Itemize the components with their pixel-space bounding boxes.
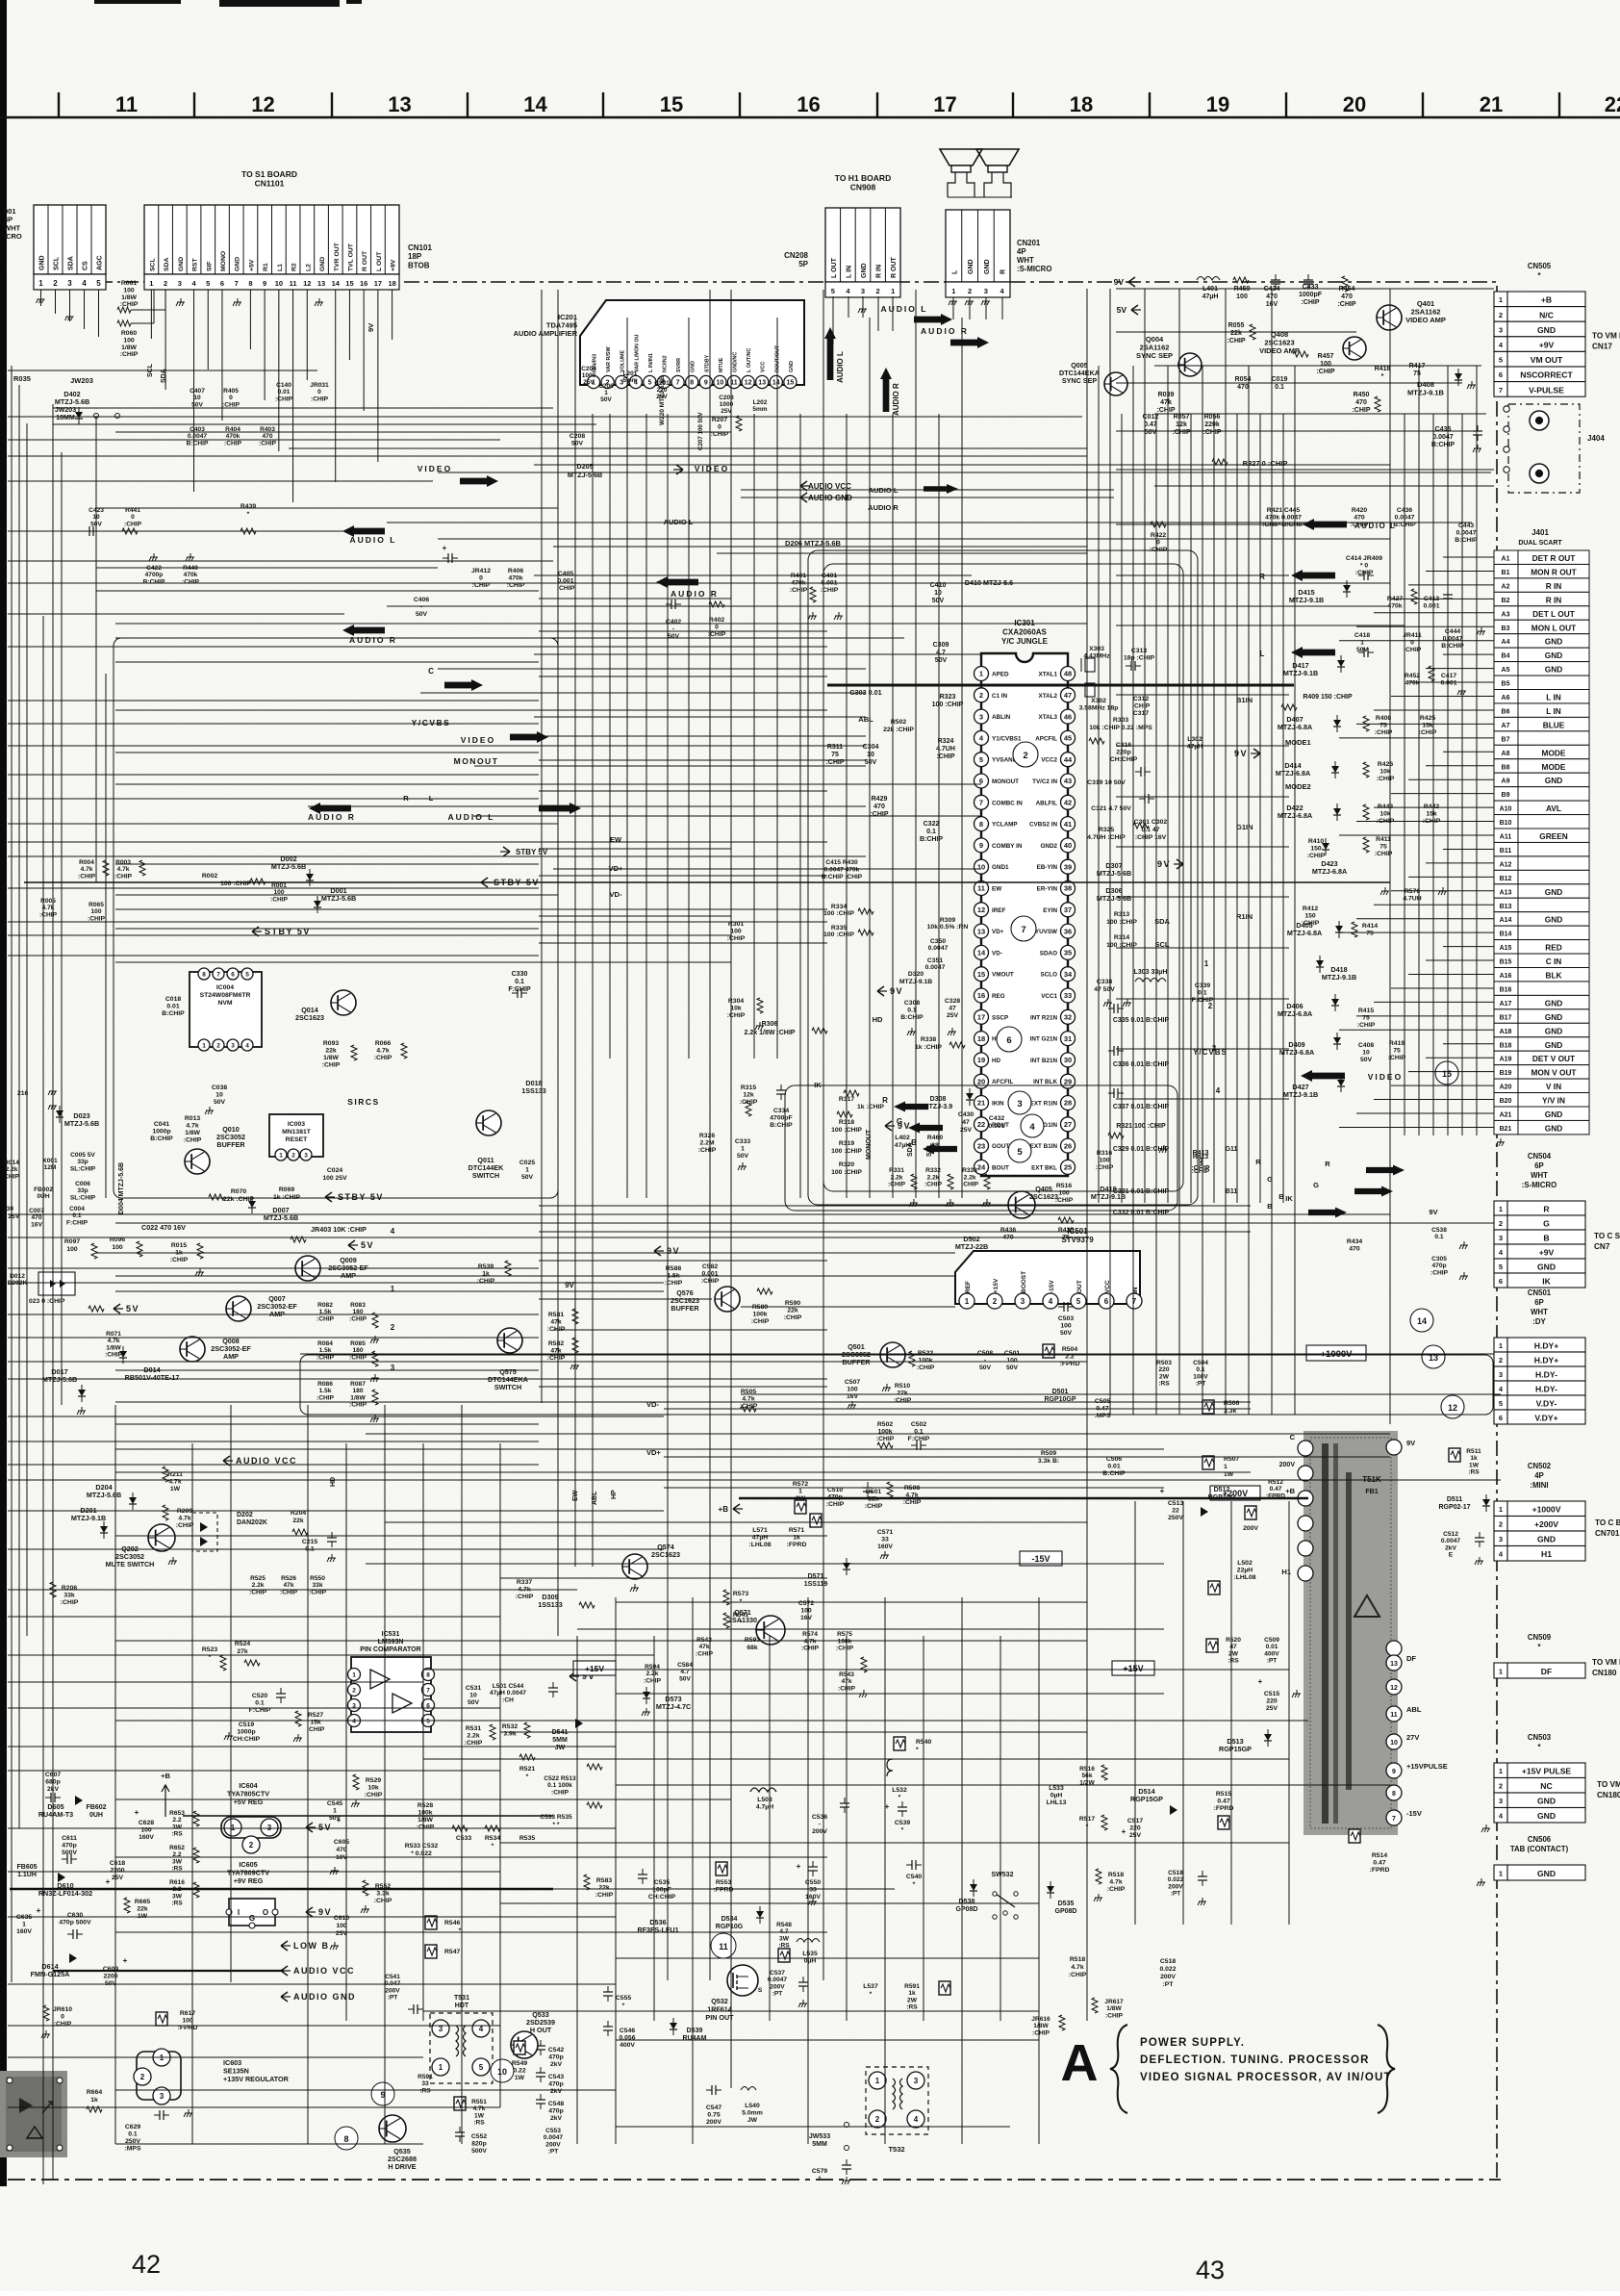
svg-text:C533: C533 (456, 1835, 471, 1842)
circled 7 (1011, 916, 1036, 941)
svg-text:22k: 22k (897, 1390, 908, 1397)
svg-text:10: 10 (275, 279, 283, 288)
svg-text:1: 1 (1499, 1870, 1503, 1878)
svg-text:R: R (882, 1096, 888, 1105)
connector J404 phono jacks (1508, 404, 1580, 493)
svg-text::CHIP: :CHIP (727, 935, 746, 942)
svg-text:TO H1 BOARD: TO H1 BOARD (835, 173, 891, 183)
node 9V chev (877, 986, 884, 996)
svg-text:MTZJ-5.6B: MTZJ-5.6B (568, 471, 602, 479)
mosfet Q532 pin out (727, 1965, 758, 1996)
svg-text:1: 1 (1499, 1205, 1503, 1213)
svg-text:L501 C544: L501 C544 (493, 1683, 524, 1690)
transistor Q575 (497, 1328, 522, 1353)
svg-text:5: 5 (426, 1718, 430, 1724)
svg-text:R IN: R IN (1546, 581, 1562, 591)
svg-text:RF3FS-LFU1: RF3FS-LFU1 (637, 1926, 678, 1934)
wire AUDIO L arrow left (1303, 519, 1347, 530)
svg-text:Y/C JUNGLE: Y/C JUNGLE (1001, 637, 1049, 646)
svg-text:5V: 5V (1117, 305, 1127, 315)
svg-text:R057: R057 (1174, 414, 1190, 421)
svg-text:R015: R015 (171, 1242, 187, 1249)
svg-text:160V: 160V (877, 1543, 893, 1550)
svg-text:GND: GND (1545, 776, 1562, 785)
svg-text:21: 21 (977, 1099, 985, 1108)
svg-text:GND: GND (39, 255, 46, 270)
svg-text:TO VM I: TO VM I (1592, 332, 1620, 341)
svg-text:43: 43 (1196, 2256, 1225, 2284)
svg-text:L303 33µH: L303 33µH (1134, 969, 1168, 976)
svg-text:MODE: MODE (1542, 748, 1566, 757)
svg-text:47k: 47k (550, 1348, 562, 1355)
svg-text:BLK: BLK (1545, 971, 1561, 981)
svg-text::FPRD: :FPRD (787, 1542, 807, 1548)
svg-text:R511: R511 (1466, 1448, 1481, 1455)
svg-text:G: G (1313, 1181, 1319, 1189)
node 9V chev2 (1177, 859, 1183, 869)
svg-text:C502: C502 (911, 1421, 926, 1428)
svg-text:4: 4 (391, 1227, 395, 1236)
svg-text:R086: R086 (317, 1381, 333, 1388)
svg-text:CN180: CN180 (1597, 1791, 1620, 1799)
svg-text:C520: C520 (252, 1693, 267, 1699)
svg-text:C308: C308 (904, 1000, 920, 1007)
svg-text::RS: :RS (1158, 1381, 1170, 1388)
svg-text:2.2k 1/8W :CHIP: 2.2k 1/8W :CHIP (745, 1030, 796, 1036)
svg-text::MPS: :MPS (125, 2146, 141, 2153)
svg-text:8: 8 (248, 279, 252, 288)
svg-text:YCLAMP: YCLAMP (992, 822, 1018, 829)
svg-text:33: 33 (881, 1537, 889, 1543)
svg-text:12M: 12M (44, 1164, 57, 1171)
svg-text:GND: GND (1545, 1026, 1562, 1035)
svg-text:16V: 16V (800, 1615, 813, 1621)
svg-text:EW: EW (610, 835, 622, 844)
svg-text:GND: GND (1545, 637, 1562, 647)
svg-text:NC/IN2: NC/IN2 (663, 355, 669, 372)
svg-text:R429: R429 (872, 796, 888, 803)
svg-text:A10: A10 (1500, 806, 1512, 813)
svg-text:18p :CHIP: 18p :CHIP (1124, 655, 1155, 662)
svg-text::CHIP: :CHIP (275, 395, 293, 402)
svg-text:8: 8 (690, 380, 694, 387)
svg-text::CHIP: :CHIP (184, 1137, 202, 1144)
svg-text:C546: C546 (620, 2028, 635, 2034)
svg-text:*: * (459, 1927, 462, 1934)
svg-text:470p: 470p (548, 2108, 564, 2115)
svg-text:IKIN: IKIN (992, 1101, 1004, 1108)
svg-text::CHIP: :CHIP (1156, 407, 1175, 414)
svg-text:1: 1 (149, 279, 153, 288)
svg-text:R457: R457 (1318, 353, 1334, 360)
svg-text:B:CHIP: B:CHIP (920, 836, 943, 843)
svg-text:11: 11 (1390, 1712, 1398, 1719)
svg-text:400V: 400V (620, 2042, 635, 2049)
svg-text:C321 4.7 50V: C321 4.7 50V (1091, 805, 1131, 812)
svg-text:AUDIO R: AUDIO R (671, 589, 719, 599)
svg-text:JR616: JR616 (1031, 2016, 1050, 2023)
svg-text:S: S (758, 1987, 763, 1994)
svg-text:48: 48 (1064, 670, 1072, 678)
svg-text:APED: APED (992, 672, 1009, 678)
diode D202 DAN202K (192, 1513, 217, 1551)
svg-text:C435: C435 (1435, 426, 1452, 433)
circled 3 (1008, 1091, 1031, 1114)
svg-text:C405: C405 (558, 571, 573, 577)
node G arrow (908, 1123, 943, 1134)
svg-text:10: 10 (215, 1092, 223, 1099)
svg-text:9V: 9V (367, 323, 375, 332)
svg-text:3W: 3W (172, 1824, 183, 1830)
svg-text:0: 0 (317, 389, 321, 395)
svg-text:9V: 9V (1234, 749, 1248, 758)
svg-text:4.7k: 4.7k (1071, 1964, 1083, 1971)
svg-text:SDAO: SDAO (1040, 950, 1057, 957)
svg-text::PT: :PT (388, 1995, 398, 2002)
op-amp IC201 TDA7495 audio amplifier (580, 300, 804, 385)
svg-text:0.01: 0.01 (1107, 1464, 1120, 1470)
svg-text:BOUT: BOUT (992, 1164, 1009, 1171)
svg-text:9: 9 (1392, 1769, 1396, 1775)
svg-text::CHIP: :CHIP (417, 1824, 435, 1831)
svg-text:MTZJ-9.1B: MTZJ-9.1B (1091, 1192, 1126, 1201)
svg-text::CHIP: :CHIP (1388, 1055, 1406, 1061)
node STBY 5V (325, 1192, 332, 1202)
svg-text:030: 030 (3, 1206, 13, 1212)
svg-text:INT BLK: INT BLK (1033, 1079, 1057, 1085)
resistor R553 (716, 1862, 727, 1875)
svg-text:SDA: SDA (907, 1142, 914, 1157)
svg-text:200V: 200V (706, 2119, 721, 2126)
circled 12 (1441, 1395, 1464, 1418)
svg-text:VAR L/MON OU: VAR L/MON OU (634, 334, 640, 372)
svg-text:C610: C610 (334, 1915, 349, 1922)
svg-text:R333: R333 (962, 1167, 977, 1174)
svg-text:9V: 9V (898, 1121, 911, 1131)
svg-text:A15: A15 (1500, 945, 1512, 952)
svg-text:MTZJ-9.1B: MTZJ-9.1B (1407, 389, 1445, 397)
svg-text:*: * (899, 1795, 901, 1801)
svg-text:4.7k: 4.7k (804, 1638, 817, 1645)
svg-text:R434: R434 (1347, 1238, 1362, 1245)
svg-text:33: 33 (421, 2080, 429, 2087)
node 9V out (306, 1907, 313, 1917)
svg-text:22k: 22k (137, 1906, 148, 1913)
svg-text:DET L OUT: DET L OUT (1532, 609, 1575, 619)
svg-text:27k: 27k (237, 1648, 248, 1655)
svg-text:CH:CHIP: CH:CHIP (648, 1894, 676, 1901)
svg-text:100 :CHIP: 100 :CHIP (220, 880, 251, 887)
svg-text:36: 36 (1064, 927, 1072, 935)
svg-text:IK: IK (1285, 1194, 1293, 1203)
svg-text:470: 470 (31, 1214, 41, 1221)
svg-text:C305: C305 (1431, 1256, 1447, 1263)
svg-text:R323: R323 (940, 694, 956, 701)
svg-text:L2: L2 (305, 264, 312, 271)
svg-text:AUDIO R: AUDIO R (868, 503, 899, 512)
transistor Q202 mute switch (148, 1524, 175, 1551)
connector CN501 (1494, 1338, 1507, 1352)
svg-text:* 0.022: * 0.022 (411, 1850, 432, 1857)
svg-text:+: + (1122, 1827, 1126, 1836)
svg-text:ST24W08FM6TR: ST24W08FM6TR (200, 992, 251, 999)
svg-text::FPRD: :FPRD (1214, 1805, 1234, 1812)
svg-text:R013: R013 (185, 1115, 200, 1122)
connector CN1101 (TO S1 BOARD) (144, 205, 399, 274)
svg-text:WHT: WHT (4, 223, 20, 232)
svg-text:R309: R309 (940, 917, 955, 924)
svg-text:14: 14 (977, 949, 986, 957)
svg-text:33: 33 (1064, 991, 1072, 1000)
svg-text:L533: L533 (1049, 1785, 1064, 1792)
svg-text:B12: B12 (1500, 876, 1512, 882)
svg-text:AUDIO R: AUDIO R (921, 326, 969, 336)
svg-text:CN180: CN180 (1592, 1669, 1617, 1677)
svg-text:22k: 22k (325, 1048, 337, 1055)
svg-text:4.7k: 4.7k (108, 1338, 120, 1344)
svg-text:GND: GND (691, 361, 696, 372)
svg-text:19: 19 (1206, 92, 1229, 116)
svg-text:0.022: 0.022 (1159, 1966, 1176, 1973)
IC U603 +135V regulator (137, 2052, 181, 2100)
svg-text:5.0mm: 5.0mm (742, 2110, 763, 2117)
svg-text:R419: R419 (1389, 1040, 1405, 1047)
svg-text::CHIP: :CHIP (259, 440, 277, 446)
svg-text:C319 10 50V: C319 10 50V (1087, 779, 1126, 786)
svg-text::CHIP: :CHIP (551, 1789, 570, 1796)
svg-text:6P: 6P (1534, 1298, 1544, 1307)
svg-text::CHIP: :CHIP (270, 896, 289, 903)
svg-text:TVL OUT: TVL OUT (347, 242, 354, 271)
svg-text:H1: H1 (1541, 1549, 1552, 1559)
svg-text:3: 3 (231, 1042, 235, 1049)
svg-text:16: 16 (977, 991, 985, 1000)
svg-text:14: 14 (772, 380, 780, 387)
svg-text:D202K: D202K (8, 1280, 28, 1287)
svg-text:B11: B11 (1226, 1188, 1238, 1195)
svg-text:R085: R085 (350, 1340, 366, 1347)
svg-text:A16: A16 (1500, 973, 1512, 980)
svg-text:33p: 33p (77, 1187, 88, 1194)
svg-text:MTZJ-9.1B: MTZJ-9.1B (1283, 1090, 1318, 1099)
svg-text:3: 3 (1499, 1234, 1503, 1242)
svg-text:R616: R616 (169, 1879, 185, 1886)
svg-text:180: 180 (352, 1388, 363, 1394)
svg-text:*: * (526, 1773, 529, 1780)
svg-text:15: 15 (345, 279, 353, 288)
svg-text:200V: 200V (1279, 1462, 1296, 1468)
svg-text:27: 27 (1064, 1120, 1072, 1129)
svg-text:D535: D535 (1058, 1901, 1075, 1907)
svg-text:+1000V: +1000V (1532, 1505, 1561, 1515)
svg-text:JW: JW (555, 1745, 566, 1751)
svg-text:CN505: CN505 (1528, 262, 1552, 270)
svg-text::CHIP: :CHIP (740, 1099, 758, 1106)
svg-text:C531: C531 (466, 1685, 481, 1692)
svg-text:LHL13: LHL13 (1047, 1799, 1067, 1806)
svg-text:R572: R572 (793, 1481, 808, 1488)
svg-text:220: 220 (657, 387, 668, 394)
svg-text:1/8W: 1/8W (121, 344, 137, 351)
svg-text:R: R (1325, 1160, 1330, 1168)
svg-text:R334: R334 (831, 904, 847, 910)
svg-text:XTAL1: XTAL1 (1039, 672, 1058, 678)
svg-text:100: 100 (336, 1923, 347, 1929)
svg-text:R: R (1543, 1204, 1550, 1213)
svg-text:B20: B20 (1500, 1098, 1512, 1105)
svg-text:14: 14 (1417, 1316, 1427, 1326)
svg-text:CS: CS (83, 261, 89, 270)
svg-text:1: 1 (798, 1489, 802, 1495)
node 5V chev (348, 1240, 355, 1250)
svg-text:470k: 470k (226, 433, 240, 440)
svg-text:0.1: 0.1 (515, 979, 524, 985)
svg-text:R528: R528 (418, 1802, 433, 1809)
svg-text:1: 1 (202, 1042, 206, 1049)
svg-text:0.0047: 0.0047 (1432, 434, 1454, 441)
svg-text:C430: C430 (958, 1111, 974, 1118)
svg-text:50V: 50V (191, 401, 203, 408)
svg-text:R087: R087 (350, 1381, 366, 1388)
svg-text:11: 11 (977, 884, 985, 893)
svg-text:2SA1330: 2SA1330 (728, 1616, 757, 1624)
svg-text:WHT: WHT (1531, 1171, 1548, 1180)
svg-text:B1IN: B1IN (1236, 696, 1253, 704)
svg-text:VD+: VD+ (992, 929, 1004, 935)
svg-text::CHIP: :CHIP (316, 1315, 335, 1322)
svg-text:R575: R575 (837, 1631, 852, 1638)
svg-text::CHIP: :CHIP (1105, 2012, 1124, 2019)
svg-text:2kV: 2kV (1445, 1544, 1456, 1551)
resistor R055 (1250, 324, 1255, 340)
svg-text:38: 38 (1064, 884, 1072, 893)
svg-text:1k: 1k (90, 2097, 98, 2104)
svg-text:13: 13 (1390, 1661, 1398, 1668)
svg-text:RST: RST (192, 258, 199, 271)
svg-text:EYIN: EYIN (1043, 907, 1057, 914)
svg-text:1: 1 (951, 287, 955, 295)
svg-text:2: 2 (352, 1687, 356, 1694)
svg-text:A21: A21 (1500, 1112, 1512, 1119)
boxed label +15V (1112, 1661, 1154, 1675)
svg-text:L571: L571 (752, 1527, 768, 1534)
svg-text:L OUT/NC: L OUT/NC (747, 348, 752, 372)
svg-text:O: O (263, 1908, 268, 1917)
svg-text:TO S1 BOARD: TO S1 BOARD (241, 169, 297, 179)
svg-text:1000p: 1000p (152, 1129, 170, 1135)
svg-text::CHIP: :CHIP (1316, 369, 1334, 375)
svg-text:15: 15 (977, 970, 985, 979)
svg-text:R055: R055 (1228, 322, 1245, 329)
svg-text:BUFFER: BUFFER (671, 1304, 699, 1313)
svg-text:C301 C302: C301 C302 (1134, 819, 1168, 826)
ruler line (0, 116, 1620, 119)
svg-text:100: 100 (123, 337, 135, 344)
svg-text:EXT B1IN: EXT B1IN (1030, 1143, 1058, 1150)
svg-text:AMP: AMP (223, 1352, 239, 1361)
transistor Q004 sync sep (1178, 353, 1202, 376)
svg-text:200V: 200V (545, 2141, 561, 2148)
svg-text:D512: D512 (1214, 1487, 1230, 1493)
svg-text:200V: 200V (1168, 1883, 1183, 1890)
svg-text:R304: R304 (728, 998, 744, 1005)
circled 5 (1008, 1139, 1031, 1162)
connector CN201 (speakers) (946, 210, 1010, 282)
svg-text:L1: L1 (277, 264, 284, 271)
svg-text:C041: C041 (154, 1121, 169, 1128)
svg-text:15: 15 (660, 92, 683, 116)
svg-text::PT: :PT (772, 1991, 783, 1998)
svg-text:2.2k: 2.2k (927, 1174, 940, 1181)
svg-text:C443: C443 (1458, 523, 1474, 529)
svg-text:B:CHIP :CHIP: B:CHIP :CHIP (822, 874, 863, 880)
svg-text:1SS133: 1SS133 (538, 1600, 563, 1609)
svg-text:R337: R337 (517, 1579, 532, 1586)
svg-text::CHIP: :CHIP (888, 1182, 906, 1188)
IC U604 5V regulator (221, 1817, 281, 1838)
svg-text:SCLO: SCLO (1041, 972, 1058, 979)
svg-text:100: 100 (730, 929, 742, 935)
svg-text:R529: R529 (366, 1777, 381, 1784)
svg-text:0.47: 0.47 (1144, 421, 1157, 428)
svg-text:GND: GND (1545, 1012, 1562, 1022)
svg-text:C206: C206 (598, 383, 614, 390)
svg-text:31: 31 (1064, 1034, 1072, 1043)
svg-text:H1: H1 (1281, 1568, 1291, 1576)
svg-text:11: 11 (290, 279, 297, 288)
svg-text:VCC1: VCC1 (1041, 993, 1057, 1000)
svg-text:C605: C605 (334, 1839, 349, 1846)
svg-text:1.1UH: 1.1UH (17, 1872, 37, 1878)
svg-text:4.7k: 4.7k (376, 1048, 389, 1055)
svg-text:0.001: 0.001 (1423, 603, 1439, 610)
svg-text:R460: R460 (927, 1135, 943, 1141)
svg-text:*: * (916, 1747, 919, 1753)
svg-text:H.DY+: H.DY+ (1534, 1355, 1559, 1365)
svg-text:G11: G11 (1226, 1146, 1238, 1153)
svg-text:AUDIO AMPLIFIER: AUDIO AMPLIFIER (514, 329, 578, 338)
circled 2 (1013, 742, 1038, 767)
resistor R506 R507 (1202, 1400, 1214, 1414)
svg-text:1/8W: 1/8W (350, 1394, 366, 1401)
svg-text:B5: B5 (1502, 681, 1510, 688)
svg-text:VCC: VCC (761, 362, 767, 372)
svg-text:B18: B18 (1500, 1042, 1512, 1049)
node 5V out (306, 1823, 313, 1832)
svg-text:C408: C408 (1358, 1042, 1374, 1049)
svg-text:29: 29 (1064, 1077, 1072, 1085)
transistor Q011 (476, 1110, 501, 1135)
svg-text:C543: C543 (548, 2074, 564, 2080)
svg-text:50V: 50V (521, 1174, 534, 1181)
svg-text:10: 10 (497, 2067, 507, 2077)
svg-text:150: 150 (1310, 846, 1322, 853)
svg-text:MTZJ-5.6B: MTZJ-5.6B (1097, 869, 1131, 878)
svg-text:POWER SUPPLY.: POWER SUPPLY. (1140, 2037, 1245, 2049)
svg-text:6: 6 (1499, 1414, 1503, 1422)
svg-text:2: 2 (1499, 1782, 1503, 1791)
svg-text:R549: R549 (512, 2060, 527, 2067)
svg-text:R325: R325 (1099, 827, 1114, 833)
svg-text:D202: D202 (237, 1512, 253, 1518)
svg-text:5: 5 (1499, 1399, 1503, 1408)
svg-text:8: 8 (343, 2134, 348, 2144)
svg-text:R IN: R IN (1546, 595, 1562, 604)
svg-text:3: 3 (979, 712, 983, 721)
svg-text:B:CHIP: B:CHIP (1455, 537, 1478, 544)
svg-text:1: 1 (1499, 1341, 1503, 1350)
svg-text:50V: 50V (737, 1153, 749, 1160)
